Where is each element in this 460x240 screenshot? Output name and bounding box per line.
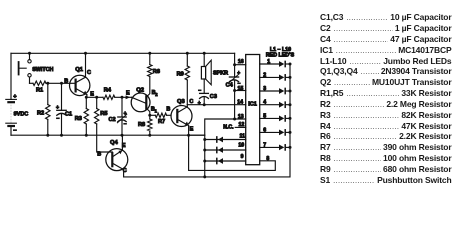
svg-text:1: 1 bbox=[155, 108, 158, 113]
transistor Q3 2N3904 bbox=[171, 106, 192, 127]
wire: pin13 to LED common vertical bbox=[205, 119, 246, 177]
svg-text:R2: R2 bbox=[37, 111, 44, 117]
transistor Q2 MU10 UJT bbox=[131, 93, 150, 112]
transistor Q4 2N3904 bbox=[106, 149, 128, 171]
svg-text:3: 3 bbox=[263, 86, 266, 92]
svg-text:−: − bbox=[198, 88, 201, 94]
battery B1 9VDC bbox=[10, 102, 12, 123]
svg-text:R4: R4 bbox=[104, 88, 112, 94]
node: C2 tap bbox=[121, 96, 124, 99]
wire: switch to R1 bbox=[30, 82, 34, 84]
svg-text:14: 14 bbox=[237, 100, 243, 106]
transistor Q1 2N3904 bbox=[70, 75, 90, 95]
node: R5 tap bbox=[95, 96, 98, 99]
svg-text:7: 7 bbox=[263, 142, 266, 148]
wire: Q3 collector to pin14 node bbox=[186, 105, 188, 107]
svg-text:11: 11 bbox=[240, 133, 246, 139]
node: C1 tap bbox=[60, 82, 63, 85]
capacitor C2 bbox=[121, 97, 123, 116]
svg-text:E: E bbox=[90, 92, 94, 98]
node: C1 to ground rail bbox=[60, 134, 63, 137]
LED L2 (pin 2) bbox=[260, 76, 279, 78]
wire: pin15 stub bbox=[235, 90, 246, 92]
wire: emitter node line bbox=[86, 96, 103, 98]
svg-text:R6: R6 bbox=[153, 69, 160, 75]
wire: Q3 emitter to ground rail bbox=[188, 126, 190, 136]
svg-text:9VDC: 9VDC bbox=[14, 112, 29, 118]
node: LED vertical to Q4 collector line bbox=[203, 175, 206, 178]
wire: R4 to Q2 emitter bbox=[115, 96, 132, 98]
svg-text:1: 1 bbox=[267, 59, 270, 65]
svg-text:Q1: Q1 bbox=[75, 67, 84, 73]
svg-text:−: − bbox=[124, 121, 127, 127]
capacitor C1 (electrolytic) bbox=[61, 83, 63, 110]
node: C3 tap bbox=[203, 103, 206, 106]
resistor R6 bbox=[148, 52, 151, 55]
node: B1/R7/R8 junction bbox=[148, 114, 151, 117]
wire: ground branch to pin 8 bbox=[189, 135, 276, 170]
parts list bbox=[320, 12, 452, 185]
speaker SPKR bbox=[203, 52, 206, 55]
svg-text:N.C.: N.C. bbox=[223, 125, 234, 131]
LED L5 (pin 5) bbox=[260, 117, 279, 119]
svg-text:2: 2 bbox=[263, 72, 266, 78]
wire: Q4 emitter to ground rail bbox=[121, 135, 123, 150]
svg-text:B: B bbox=[97, 152, 101, 158]
svg-text:15: 15 bbox=[238, 86, 244, 92]
Q2 base-1 lead bbox=[146, 108, 150, 115]
resistor R2 bbox=[47, 83, 49, 104]
svg-text:IC1: IC1 bbox=[248, 102, 257, 108]
svg-text:R9: R9 bbox=[177, 71, 184, 77]
svg-text:+: + bbox=[198, 100, 201, 106]
node: R3 to ground rail bbox=[85, 134, 88, 137]
svg-text:+: + bbox=[124, 111, 127, 117]
svg-text:10: 10 bbox=[238, 143, 244, 149]
svg-text:C2: C2 bbox=[109, 117, 116, 123]
svg-text:E: E bbox=[126, 91, 130, 97]
svg-text:+: + bbox=[56, 105, 59, 111]
svg-text:R3: R3 bbox=[75, 116, 82, 122]
svg-text:4: 4 bbox=[263, 100, 266, 106]
svg-text:E: E bbox=[190, 127, 194, 133]
svg-text:12: 12 bbox=[239, 122, 245, 128]
resistor R5 bbox=[96, 97, 98, 108]
wire: top rail corner down to C4 branch bbox=[234, 53, 236, 64]
svg-text:B: B bbox=[64, 79, 68, 85]
svg-text:2: 2 bbox=[155, 92, 158, 97]
svg-text:Q4: Q4 bbox=[110, 140, 119, 146]
capacitor C4 bbox=[234, 65, 236, 77]
svg-text:−: − bbox=[56, 116, 59, 122]
LED L3 (pin 3) bbox=[260, 90, 279, 92]
svg-text:C3: C3 bbox=[210, 94, 217, 100]
resistor R8 bbox=[149, 115, 151, 119]
IC1 MC14017BCP bbox=[246, 55, 260, 165]
svg-text:6: 6 bbox=[263, 127, 266, 133]
svg-text:5: 5 bbox=[263, 113, 266, 119]
wire: Q1 collector to top rail bbox=[85, 53, 87, 77]
svg-text:Q2: Q2 bbox=[136, 88, 144, 94]
wire: bottom ground rail bbox=[11, 134, 205, 136]
resistor R7 bbox=[150, 114, 156, 116]
wire: Q1 emitter to node line bbox=[86, 95, 88, 98]
wire: R5 to Q4 base (crosses rail) bbox=[97, 124, 113, 152]
node: C4 branch joins pin13 line bbox=[233, 118, 236, 121]
LED L4 (pin 4) bbox=[260, 104, 279, 106]
resistor R9 bbox=[186, 52, 189, 55]
LED L9 (pin 10) bbox=[205, 149, 246, 151]
svg-text:C: C bbox=[87, 70, 91, 76]
node: C2/Q4 emitter to ground rail bbox=[121, 134, 124, 137]
svg-text:9: 9 bbox=[241, 154, 244, 160]
LED L1 (pin 1) bbox=[260, 63, 279, 65]
LED L6 (pin 6) bbox=[260, 131, 279, 133]
LED L8 (pin 11) bbox=[205, 139, 246, 141]
wire: top supply rail bbox=[11, 52, 235, 54]
svg-text:8: 8 bbox=[266, 156, 269, 162]
svg-text:16: 16 bbox=[238, 59, 244, 65]
svg-text:R8: R8 bbox=[138, 122, 145, 128]
svg-text:C4: C4 bbox=[226, 83, 234, 89]
UJT emitter arrow bbox=[126, 95, 131, 99]
svg-text:Q3: Q3 bbox=[177, 99, 186, 105]
wire: R7 to Q3 base bbox=[167, 114, 171, 116]
Q2 base-2 lead bbox=[146, 77, 150, 98]
svg-text:−: − bbox=[13, 128, 17, 134]
svg-text:C: C bbox=[189, 99, 193, 105]
svg-text:+: + bbox=[237, 71, 240, 77]
LED L7 (pin 7) bbox=[260, 146, 279, 148]
node: pin15 junction bbox=[233, 89, 236, 92]
pushbutton switch S1 bbox=[28, 52, 31, 55]
node: Q3 emitter / ground branch bbox=[187, 134, 190, 137]
wire: pin16 stub bbox=[235, 64, 246, 66]
wire: R1 to Q1 base bbox=[46, 82, 70, 84]
svg-text:R1: R1 bbox=[36, 88, 43, 94]
node: R8 to ground rail bbox=[148, 134, 151, 137]
svg-text:R7: R7 bbox=[158, 119, 165, 125]
capacitor C3 (electrolytic) bbox=[203, 79, 205, 93]
node: R2 tap bbox=[46, 82, 49, 85]
wire: pin14 line to IC1 bbox=[187, 104, 245, 106]
svg-text:SWITCH: SWITCH bbox=[32, 67, 53, 73]
resistor R3 bbox=[85, 97, 87, 108]
LED L10 (pin 9) bbox=[205, 160, 246, 162]
svg-text:C1: C1 bbox=[65, 111, 72, 117]
wire: Q4 collector to LED cathode bus bbox=[124, 64, 290, 177]
node: R2 to ground rail bbox=[46, 134, 49, 137]
svg-text:RED LED’S: RED LED’S bbox=[266, 53, 295, 59]
svg-text:R5: R5 bbox=[100, 111, 107, 117]
resistor R1 bbox=[33, 81, 46, 85]
wire: left rail (battery branch) bbox=[10, 53, 12, 99]
pin 12 stub N.C. bbox=[235, 126, 246, 128]
svg-text:SPKR: SPKR bbox=[213, 70, 228, 76]
resistor R4 bbox=[103, 95, 115, 99]
wire: ground rail to LED vertical bbox=[189, 134, 205, 136]
node: pin16 tap bbox=[233, 63, 236, 66]
svg-text:B: B bbox=[166, 107, 170, 113]
